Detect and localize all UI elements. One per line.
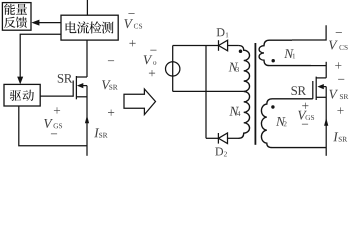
polarity dot N3 (239, 49, 243, 53)
polarity dot N2 (271, 105, 274, 108)
wire: middle vertical (205, 46, 207, 139)
text 能 (4, 4, 15, 15)
label V_GS (left) (54, 107, 60, 113)
wire: drain segment below V_CS gap (325, 62, 327, 78)
text 反 (4, 17, 16, 28)
label SR (left) (58, 74, 73, 83)
wire: detection to feedback arrow (38, 22, 62, 24)
text 电 (66, 22, 77, 34)
label N2 (276, 117, 286, 126)
block: energy-feedback box (能量反馈) (2, 3, 31, 31)
label V_SR (right) (338, 78, 344, 81)
big block arrow (124, 89, 156, 115)
text 检 (89, 22, 101, 34)
label V_o (150, 49, 156, 52)
text 驱 (10, 90, 21, 101)
diode D1 (218, 40, 220, 51)
label D1 (217, 28, 225, 36)
winding N2 (261, 99, 326, 148)
block: current-detection box (电流检测) (61, 15, 118, 40)
wire: top rail to D1 (173, 45, 219, 47)
text 测 (102, 22, 114, 34)
label V_CS (right) (336, 31, 342, 34)
current arrow I_SR (right) (324, 118, 328, 126)
label V_GS (right) (302, 103, 308, 109)
winding N4 (239, 91, 250, 138)
text 馈 (16, 17, 27, 28)
label V_SR (left) (108, 59, 114, 62)
wire: detection to drive (20, 34, 61, 77)
wire: detection box to SR drain (86, 40, 88, 77)
source V_o circle (166, 62, 180, 76)
block: drive box (驱动) (4, 84, 40, 106)
text 流 (77, 21, 89, 33)
label N4 (229, 107, 239, 116)
text 量 (16, 4, 27, 15)
wire: top stub to current-detection (86, 0, 88, 15)
polarity dot N1 (272, 59, 275, 62)
winding N1 (259, 40, 311, 65)
label V_CS (left) (128, 12, 134, 15)
label I_SR (right) (333, 132, 338, 141)
wire: drive to gate (40, 95, 73, 97)
transformer core (254, 43, 256, 145)
label N1 (284, 49, 294, 58)
wire: middle horizontal (173, 90, 244, 92)
wire: drive bottom to source (V_GS loop) (19, 106, 87, 146)
diode D2 (206, 137, 218, 139)
current arrow I_SR (left) (85, 115, 89, 123)
winding N3 (239, 46, 250, 92)
label D2 (215, 148, 223, 156)
transistor SR (left) (72, 81, 74, 97)
label SR (right) (292, 86, 307, 95)
wire: N1 bottom lead joins drain (311, 65, 326, 67)
label I_SR (left) (94, 128, 99, 137)
transistor SR (right) (312, 81, 314, 99)
label N3 (229, 63, 239, 72)
wire: N1 top to V_CS gap (292, 25, 326, 40)
text 动 (23, 90, 34, 101)
